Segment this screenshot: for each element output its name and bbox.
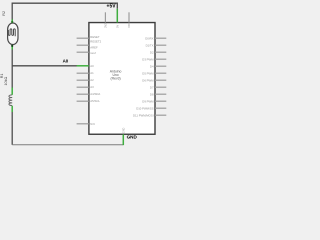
svg-text:A0: A0: [63, 59, 69, 64]
svg-text:D7: D7: [150, 85, 154, 89]
svg-text:RESET2: RESET2: [90, 40, 101, 44]
svg-text:ioref: ioref: [90, 51, 96, 55]
svg-text:3V3: 3V3: [104, 23, 107, 28]
svg-text:A2: A2: [90, 78, 94, 82]
svg-text:R2: R2: [2, 11, 6, 16]
svg-text:D1/TX: D1/TX: [146, 43, 154, 47]
svg-text:GND: GND: [127, 135, 138, 140]
svg-text:D9 PWM: D9 PWM: [142, 99, 154, 103]
svg-text:A4/SDA: A4/SDA: [90, 92, 100, 96]
svg-text:GND: GND: [122, 127, 125, 133]
svg-text:A5/SCL: A5/SCL: [90, 99, 100, 103]
svg-text:+5V: +5V: [107, 4, 117, 10]
svg-text:A0: A0: [90, 64, 94, 68]
svg-text:D3 PWM: D3 PWM: [142, 57, 154, 61]
svg-text:D8: D8: [150, 92, 154, 96]
svg-text:10kΩ: 10kΩ: [4, 77, 8, 86]
svg-text:D6 PWM: D6 PWM: [142, 78, 154, 82]
svg-text:5V: 5V: [116, 25, 119, 28]
svg-text:D10 PWM/SS: D10 PWM/SS: [136, 106, 153, 110]
svg-text:RESET: RESET: [90, 35, 100, 39]
svg-text:AREF: AREF: [90, 46, 98, 50]
svg-text:A3: A3: [90, 85, 94, 89]
svg-text:D11 PWM/MOSI: D11 PWM/MOSI: [133, 113, 154, 117]
svg-text:D4: D4: [150, 64, 154, 68]
svg-text:VIN: VIN: [128, 24, 131, 28]
svg-text:D2: D2: [150, 50, 154, 54]
svg-text:D5 PWM: D5 PWM: [142, 71, 154, 75]
svg-text:A1: A1: [90, 71, 94, 75]
svg-text:D0/RX: D0/RX: [145, 36, 153, 40]
svg-text:N/C: N/C: [90, 122, 95, 126]
svg-text:(Rev3): (Rev3): [111, 77, 121, 81]
